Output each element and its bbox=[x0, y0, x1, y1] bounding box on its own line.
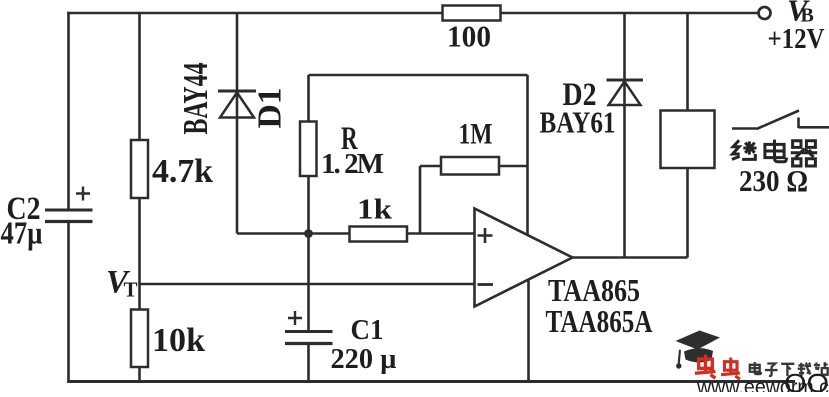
svg-text:D1: D1 bbox=[252, 88, 289, 129]
diode D2 bbox=[607, 80, 644, 105]
svg-text:220 µ: 220 µ bbox=[331, 343, 397, 375]
wire opamp ground vertical bbox=[527, 280, 530, 382]
wire VT line bbox=[140, 283, 475, 286]
svg-text:100: 100 bbox=[447, 19, 491, 54]
wire feedback top bbox=[309, 74, 528, 77]
svg-text:4.7k: 4.7k bbox=[152, 153, 213, 190]
wire 1M left lead bbox=[420, 166, 441, 234]
wire feedback vertical upper bbox=[526, 75, 529, 236]
wire D1 branch bbox=[236, 13, 239, 234]
svg-text:1. 2M: 1. 2M bbox=[321, 148, 384, 180]
wire relay bottom lead bbox=[686, 168, 689, 258]
watermark chongchong red bbox=[695, 355, 740, 380]
wire bottom rail bbox=[67, 380, 795, 383]
wire D2 branch bbox=[623, 13, 626, 258]
resistor 10k body bbox=[131, 310, 148, 368]
capacitor C1 bbox=[285, 311, 333, 344]
watermark dianzixiazaizhan 电子下载站 bbox=[750, 362, 828, 376]
svg-text:47µ: 47µ bbox=[1, 215, 43, 251]
wire top rail bbox=[67, 12, 757, 15]
svg-text:230 Ω: 230 Ω bbox=[739, 163, 808, 198]
capacitor C2 bbox=[45, 187, 93, 222]
svg-text:+12V: +12V bbox=[768, 23, 825, 55]
resistor 4.7k body bbox=[131, 140, 148, 198]
terminal VB bbox=[759, 7, 771, 19]
wire opamp output bbox=[573, 256, 688, 259]
resistor 1M body bbox=[441, 157, 499, 175]
diode D1 bbox=[218, 91, 256, 118]
svg-text:QQ: QQ bbox=[784, 368, 829, 392]
wire R/C1 branch bbox=[307, 75, 310, 382]
resistor R 1.2M body bbox=[300, 122, 317, 177]
relay coil box bbox=[661, 111, 715, 169]
op-amp U1 TAA865 bbox=[475, 209, 573, 307]
wire 1M right lead bbox=[499, 165, 528, 168]
wire 4.7k/10k branch bbox=[138, 13, 141, 382]
relay contact switch bbox=[732, 111, 829, 130]
svg-text:T: T bbox=[124, 278, 138, 302]
resistor 100 body bbox=[443, 6, 501, 21]
wire relay top lead bbox=[686, 13, 689, 111]
svg-text:TAA865A: TAA865A bbox=[546, 303, 653, 339]
svg-text:1k: 1k bbox=[357, 194, 393, 226]
svg-text:1M: 1M bbox=[459, 118, 493, 151]
svg-text:C1: C1 bbox=[351, 314, 384, 346]
svg-text:BAY61: BAY61 bbox=[540, 105, 616, 140]
node A junction dot bbox=[304, 229, 313, 238]
svg-text:BAY44: BAY44 bbox=[176, 63, 215, 135]
wire node-A horizontal bbox=[237, 232, 475, 235]
wire left vertical bbox=[67, 12, 70, 383]
watermark graduation cap bbox=[676, 331, 721, 369]
resistor 1k body bbox=[350, 227, 408, 242]
label relay chinese 继电器 bbox=[732, 140, 817, 166]
svg-text:10k: 10k bbox=[152, 322, 205, 359]
